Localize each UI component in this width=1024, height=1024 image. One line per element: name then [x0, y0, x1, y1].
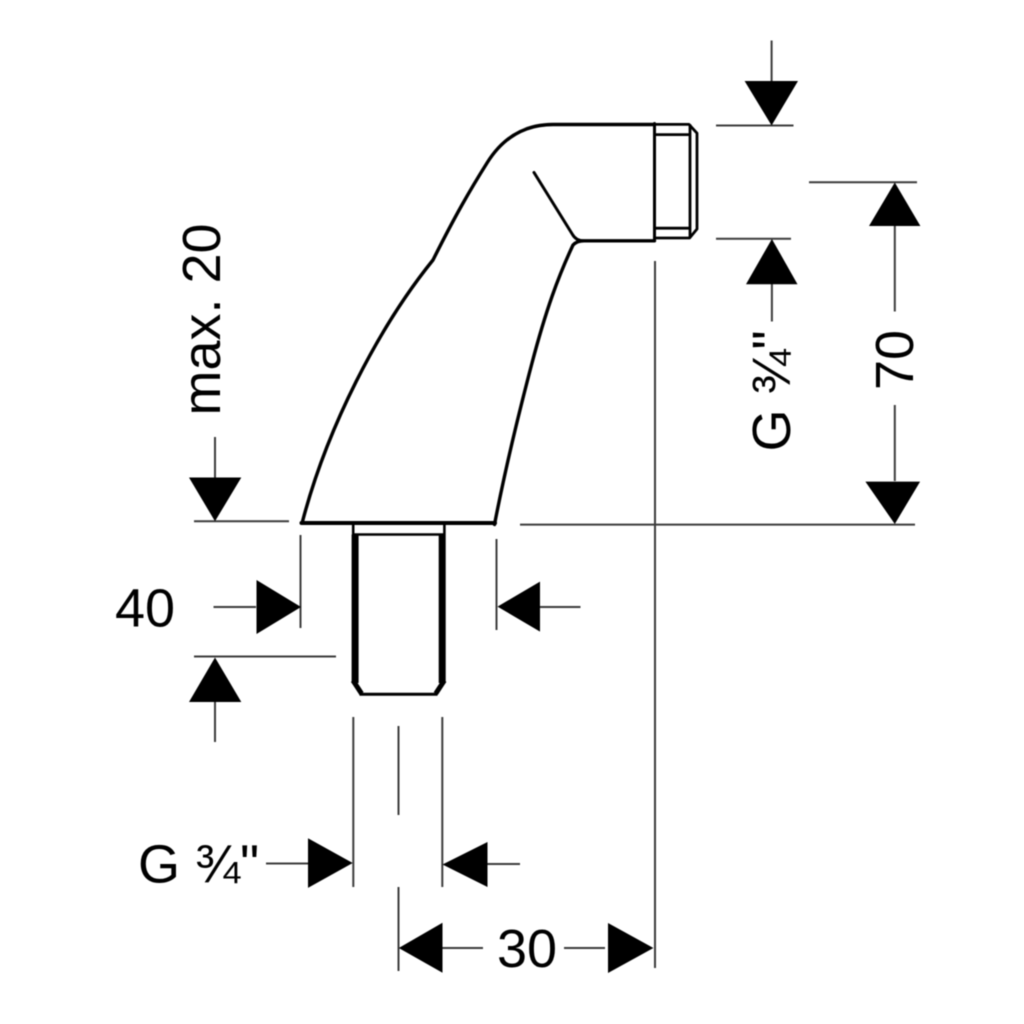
svg-text:G ¾": G ¾"	[138, 835, 259, 895]
svg-text:40: 40	[115, 579, 175, 639]
svg-text:G ¾": G ¾"	[742, 330, 802, 451]
svg-text:30: 30	[497, 919, 557, 979]
svg-text:70: 70	[865, 330, 925, 390]
svg-text:max. 20: max. 20	[172, 223, 232, 415]
